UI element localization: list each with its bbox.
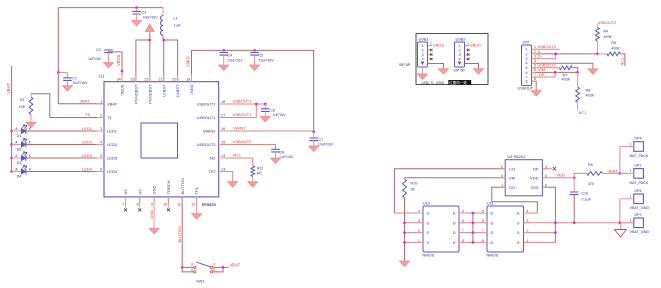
ground for TP1 pin 12 — [192, 214, 202, 219]
net label BUTTON vertical — [177, 226, 182, 242]
wire GP6 to VBAT_GND node — [619, 199, 621, 223]
svg-text:VBUS: VBUS — [116, 54, 121, 66]
resistor R7 493K — [559, 66, 577, 82]
no-connect USB1 pin 2 — [428, 49, 433, 51]
connector JP2 — [522, 40, 532, 86]
svg-text:NC: NC — [210, 156, 216, 161]
svg-text:D: D — [491, 231, 494, 235]
svg-text:VBUS: VBUS — [120, 84, 125, 95]
LED D1 — [12, 125, 32, 138]
wire JP2 pin 4 to ground — [532, 63, 593, 69]
power arrow PGNDBST — [145, 24, 154, 32]
svg-text:C10: C10 — [581, 192, 588, 196]
svg-text:USBOUT: USBOUT — [518, 87, 534, 91]
net label NC1 below R5 vertical — [620, 58, 625, 66]
ground for C2 — [104, 63, 114, 68]
svg-text:BAT_PACK: BAT_PACK — [630, 181, 649, 185]
svg-text:R9: R9 — [588, 163, 593, 167]
JP2 pin stubs overlay — [532, 49, 537, 81]
junction USBOUT1 tie — [255, 103, 258, 106]
junction node X DM DP R7 R8 — [576, 71, 579, 74]
svg-text:D: D — [453, 212, 456, 216]
pad GP2 — [630, 164, 649, 185]
pin number 6 and net label DM at JP2 — [534, 67, 545, 72]
svg-text:VMID: VMID — [189, 84, 194, 94]
wire U10 S pin 1 — [405, 241, 424, 243]
junction C4 tap — [222, 49, 225, 52]
net label LED1 — [82, 126, 93, 131]
svg-text:C4: C4 — [228, 54, 233, 58]
junction VBAT node at pads — [619, 172, 622, 175]
ground for pin 9 — [149, 229, 159, 234]
svg-text:1: 1 — [630, 142, 632, 146]
ground for C7 — [309, 146, 319, 151]
svg-text:RT9470: RT9470 — [202, 202, 216, 207]
net label NC1 below R8 — [579, 110, 587, 115]
ground for R1 — [26, 122, 36, 127]
U1 top pin numbers 24-19 — [117, 77, 191, 81]
junction VDD node — [573, 176, 576, 179]
wire LED2 cathode to pin 4 — [26, 144, 104, 146]
LED D4 — [12, 165, 32, 178]
junction drain bus row 6 — [472, 221, 475, 224]
op-amp U5 S8261 protection IC body — [505, 154, 542, 196]
pin number 5 and net label USBOUT1 at JP2 — [534, 63, 556, 68]
wire CO to U10 gate — [394, 169, 505, 213]
junction LXBST pins — [162, 39, 165, 42]
svg-text:1uH: 1uH — [174, 24, 181, 28]
svg-text:GND: GND — [152, 186, 157, 195]
wire JP2 pin 3 D+ tie to pin 2 — [532, 54, 556, 59]
wire JP2 pin 5 USBOUT1 to R7 — [532, 67, 560, 69]
svg-text:U1: U1 — [99, 74, 105, 79]
pin number 4 at JP2 — [534, 59, 536, 63]
svg-text:2: 2 — [534, 50, 536, 54]
wire USBOUT2 pin 15 net — [219, 145, 276, 150]
svg-text:4: 4 — [534, 59, 536, 63]
svg-text:LED2: LED2 — [107, 142, 118, 147]
capacitor C2 1uF/16V — [88, 48, 113, 63]
svg-text:JP2: JP2 — [523, 40, 530, 45]
svg-text:C3: C3 — [142, 11, 147, 15]
svg-text:T1: T1 — [107, 115, 112, 120]
wire corner down to VBAT pin 1 — [58, 8, 104, 104]
svg-text:LED4: LED4 — [82, 167, 93, 172]
capacitor C6 1uF/16V — [261, 104, 286, 117]
svg-text:USB1: USB1 — [422, 81, 431, 85]
net label USBOUT2 above R4 — [598, 20, 618, 25]
svg-text:D2: D2 — [17, 148, 22, 152]
svg-text:GP4: GP4 — [634, 137, 641, 141]
svg-text:D3: D3 — [17, 161, 22, 165]
net label VBUS at USB2 pin 1 — [467, 42, 481, 48]
capacitor C7 10uF/16V — [309, 132, 333, 147]
svg-text:C6: C6 — [270, 109, 275, 113]
connector USB1 SIP-5P — [418, 37, 429, 68]
svg-text:SWIN2: SWIN2 — [203, 129, 216, 134]
svg-text:R10: R10 — [411, 182, 418, 186]
pad GP3 — [630, 213, 650, 234]
wire NC pin 14 to R11 — [219, 158, 253, 166]
junction LED2 anode on VBAT bus — [10, 143, 13, 146]
svg-text:DO: DO — [509, 185, 515, 190]
svg-text:10K: 10K — [19, 105, 26, 109]
no-connect USB1 pin 4 — [428, 58, 433, 60]
no-connect USB2 pin 2 — [465, 49, 470, 51]
U5 pin numbers — [501, 165, 547, 188]
capacitor C4 22uF/16V — [219, 50, 243, 65]
U10 pin numbers — [418, 209, 464, 242]
wire TP1 pin 12 down — [196, 197, 198, 214]
svg-text:USB2: USB2 — [456, 37, 466, 42]
svg-text:USBOUT1: USBOUT1 — [197, 102, 217, 107]
svg-text:USBOUT2: USBOUT2 — [233, 139, 253, 144]
svg-text:TP2: TP2 — [208, 169, 216, 174]
ground for C5 — [250, 65, 260, 70]
svg-text:2: 2 — [526, 52, 528, 56]
svg-text:NC: NC — [123, 189, 128, 195]
no-connect USB2 pin 3 — [465, 53, 470, 55]
wire U11 S pin 3 row to pads — [524, 222, 634, 224]
wire USB1 pin1 VBUS — [428, 45, 433, 47]
junction C3 tap on top rail — [135, 6, 138, 9]
wire SWIN2 pin 16 to VMID rail — [219, 130, 314, 132]
svg-text:4: 4 — [458, 58, 460, 62]
wire BUTTON pin 11 down to switch — [181, 197, 183, 268]
no-connect pin 8 — [138, 197, 141, 211]
ground for JP2 pin 4 — [588, 69, 598, 74]
junction LED4 anode on VBAT bus — [10, 170, 13, 173]
svg-text:10uF/16V: 10uF/16V — [72, 81, 88, 85]
svg-text:VBAT: VBAT — [230, 263, 241, 268]
wire LED3 cathode to pin 5 — [26, 157, 104, 159]
junction R4 R5 node — [596, 53, 599, 56]
svg-text:D: D — [453, 241, 456, 245]
wire VSS down to source bus — [542, 187, 555, 242]
wire GND pin 9 down — [153, 197, 155, 229]
svg-text:VBAT_GND: VBAT_GND — [630, 230, 650, 234]
junction BUTTON at switch — [181, 266, 184, 269]
svg-text:1: 1 — [213, 263, 215, 267]
resistor R11 NC — [251, 166, 263, 182]
svg-text:1: 1 — [534, 45, 536, 49]
svg-text:2K: 2K — [411, 188, 416, 192]
resistor R8 493K — [576, 72, 595, 110]
U1 left pin names — [107, 102, 118, 175]
U1 bottom pin numbers 7-12 — [122, 202, 195, 206]
capacitor C8 1uF/16V — [271, 149, 294, 159]
net label USBOUT1 pin 18 — [233, 99, 253, 104]
svg-text:0.1uF: 0.1uF — [581, 198, 591, 202]
wire U10 S pin 2 — [405, 232, 424, 234]
wire switch right contacts to VBAT — [213, 267, 229, 272]
svg-text:U10: U10 — [423, 202, 430, 206]
svg-text:DP: DP — [533, 166, 539, 171]
U1 right pin names — [197, 102, 217, 175]
svg-text:D: D — [453, 231, 456, 235]
junction D- D+ tie — [554, 53, 557, 56]
svg-text:R4: R4 — [604, 30, 609, 34]
junction SWIN2 and C7 — [312, 130, 315, 133]
text SIP-5P left of USB1 — [399, 63, 411, 67]
no-connect U5 DP pin 4 — [542, 167, 556, 171]
junction drain bus row 7 — [472, 231, 475, 234]
svg-text:D: D — [491, 221, 494, 225]
svg-text:22uF/16V: 22uF/16V — [259, 59, 275, 63]
svg-text:3: 3 — [534, 55, 536, 59]
svg-text:VBAT: VBAT — [608, 168, 619, 173]
svg-text:11: 11 — [177, 202, 181, 206]
svg-text:VSS: VSS — [530, 185, 538, 190]
junction U10 S1 — [403, 241, 406, 244]
wire LXBST pins 21,20 join to L1 — [163, 35, 178, 81]
svg-text:USBOUT2: USBOUT2 — [598, 20, 618, 25]
wire VBUS pin 24 up and left to C2 — [109, 52, 123, 82]
junction GP6 on VBAT_GND row — [619, 221, 622, 224]
wire JP2 pin 2 D- to R4 node — [532, 53, 598, 55]
resistor R10 2K — [403, 178, 418, 198]
junction drain bus row 5 — [472, 212, 475, 215]
svg-text:22uF/16V: 22uF/16V — [228, 59, 244, 63]
svg-text:22: 22 — [144, 77, 148, 81]
resistor R9 470 — [574, 163, 634, 186]
svg-text:USB2: USB2 — [436, 81, 445, 85]
svg-text:1uF/16V: 1uF/16V — [273, 113, 287, 117]
net label VBAT at switch — [230, 263, 241, 268]
svg-text:VBAT: VBAT — [107, 102, 118, 107]
svg-text:6: 6 — [534, 68, 536, 72]
svg-text:LXBST: LXBST — [161, 84, 166, 97]
svg-text:19: 19 — [186, 77, 190, 81]
wire U10 drains to U11 drains rows — [459, 213, 487, 242]
net label LED3 — [82, 153, 93, 158]
svg-text:USB1: USB1 — [419, 37, 429, 42]
LED D3 — [12, 152, 32, 165]
svg-text:VBAT: VBAT — [80, 99, 91, 104]
svg-text:BUTTON: BUTTON — [180, 178, 185, 194]
wire LED4 cathode to pin 6 — [26, 171, 104, 173]
svg-text:LED1: LED1 — [82, 126, 93, 131]
svg-text:1: 1 — [526, 48, 528, 52]
svg-text:USBOUT1: USBOUT1 — [233, 99, 253, 104]
svg-text:G: G — [517, 212, 520, 216]
net label VBUS at USB1 pin 1 — [430, 42, 444, 48]
wire JP2 pin 8 to ground — [532, 81, 537, 90]
U11 pin numbers — [482, 209, 528, 242]
net label LED2 — [82, 140, 93, 145]
junction U11 S3 on bus — [554, 221, 557, 224]
pin number 2 and net label D- at JP2 — [534, 49, 542, 54]
svg-text:5: 5 — [534, 64, 536, 68]
svg-text:D: D — [453, 221, 456, 225]
svg-text:SIP-5P: SIP-5P — [399, 63, 411, 67]
net label VBAT vertical on left bus — [6, 83, 11, 94]
svg-text:NC1: NC1 — [620, 58, 625, 66]
wire pad GP3 stub — [620, 222, 634, 224]
wire U10 S pin 3 — [405, 222, 424, 224]
pad GP6 — [630, 189, 650, 210]
net label VBAT at pin 1 — [80, 99, 91, 104]
svg-text:1uF/16V: 1uF/16V — [280, 155, 294, 159]
ground for USB2 pin 5 — [474, 69, 484, 74]
svg-text:1: 1 — [421, 44, 423, 48]
svg-text:BUTTON: BUTTON — [177, 226, 182, 242]
net label USBOUT1 pin 17 — [233, 112, 253, 117]
U1 pin stubs overlay — [97, 75, 226, 204]
pin number 7 and net label DP at JP2 — [534, 72, 545, 77]
svg-text:VBAT_GND: VBAT_GND — [630, 206, 650, 210]
wire DO to U11 gate — [492, 187, 538, 213]
junction C10 bottom on VBAT_GND row — [573, 221, 576, 224]
ground for USB1 shell — [418, 74, 428, 79]
capacitor C5 22uF/16V — [250, 50, 274, 65]
svg-text:10uF/16V: 10uF/16V — [143, 16, 159, 20]
pin number 3 and net label D+ at JP2 — [534, 54, 543, 59]
wire USB1 shell to ground — [422, 67, 424, 74]
svg-text:SW1: SW1 — [196, 279, 205, 284]
junction U10 S2 — [403, 231, 406, 234]
junction U11 S2 on bus — [554, 231, 557, 234]
svg-text:NC: NC — [257, 172, 263, 176]
no-connect pin 10 — [167, 197, 170, 211]
ground for R11 — [248, 182, 258, 187]
svg-text:BAT_PACK: BAT_PACK — [630, 154, 649, 158]
svg-text:1: 1 — [467, 42, 469, 46]
wire top-left corner VBAT rail — [58, 7, 163, 9]
wire pad GP4 stub — [620, 146, 634, 148]
resistor R4 493K — [596, 25, 613, 54]
svg-text:1: 1 — [630, 169, 632, 173]
svg-text:3: 3 — [458, 53, 460, 57]
svg-text:10: 10 — [163, 202, 167, 206]
pin number 1 and net label USBOUT2 at JP2 — [534, 44, 556, 49]
svg-text:4: 4 — [191, 268, 193, 272]
ground for C8 — [271, 158, 281, 163]
wire U10 source bus to ground — [404, 198, 406, 261]
ground for C3 — [132, 21, 142, 26]
svg-text:LED3: LED3 — [107, 156, 118, 161]
svg-text:NMOS: NMOS — [487, 253, 499, 258]
svg-text:D+: D+ — [538, 54, 544, 59]
svg-text:6: 6 — [526, 71, 528, 75]
wire switch left contacts — [182, 267, 194, 272]
note text USB1 USB2 alignment — [422, 80, 472, 85]
svg-text:2: 2 — [458, 49, 460, 53]
svg-text:R5: R5 — [611, 41, 616, 45]
svg-text:TP1: TP1 — [194, 186, 199, 194]
net label USBOUT2 — [233, 139, 253, 144]
svg-text:2: 2 — [421, 49, 423, 53]
wire VDD net — [542, 177, 574, 179]
wire PGNDBST pins 23,22 up to power arrow — [136, 32, 150, 82]
svg-text:8: 8 — [534, 77, 536, 81]
wire JP2 pin 1 USBOUT2 stub — [532, 48, 560, 50]
svg-text:USBOUT2: USBOUT2 — [197, 142, 217, 147]
wire JP2 pin 7 DP tie to pin 6 — [532, 72, 556, 77]
junction DM DP tie — [554, 71, 557, 74]
svg-text:NMOS: NMOS — [423, 253, 435, 258]
svg-text:VBUS: VBUS — [470, 42, 481, 47]
svg-text:NC1: NC1 — [233, 153, 242, 158]
svg-text:LED2: LED2 — [82, 140, 93, 145]
junction PGNDBST pins — [148, 39, 151, 42]
USB section enclosure box — [416, 34, 488, 85]
svg-text:TORCH: TORCH — [166, 180, 171, 194]
wire R1 top to TS pin 2 — [31, 94, 104, 118]
svg-text:LED4: LED4 — [107, 169, 118, 174]
wire JP2 pin 6 DM to node X — [532, 71, 578, 73]
svg-text:493K: 493K — [604, 35, 613, 39]
U1 bottom pin names — [123, 178, 199, 194]
svg-text:3: 3 — [526, 57, 528, 61]
svg-text:470: 470 — [588, 182, 594, 186]
inductor L1 1uH — [161, 8, 181, 36]
net label SWIN2 — [233, 126, 246, 131]
svg-text:U5 S8261: U5 S8261 — [507, 154, 526, 159]
svg-text:3: 3 — [421, 53, 423, 57]
switch SW1 contacts and lever — [191, 262, 215, 283]
junction C1 tap — [57, 71, 60, 74]
net label GND vertical — [149, 210, 154, 219]
svg-text:位置同一致: 位置同一致 — [449, 80, 467, 85]
svg-text:C2: C2 — [96, 48, 101, 52]
node VBAT left bus wire — [11, 66, 13, 172]
net label VBUS vertical — [116, 54, 121, 66]
junction on VBUS wire — [121, 70, 124, 73]
svg-text:20: 20 — [172, 77, 176, 81]
svg-text:NC1: NC1 — [579, 110, 587, 115]
svg-text:LXBST: LXBST — [175, 84, 180, 97]
svg-text:R1: R1 — [20, 98, 25, 102]
svg-text:12: 12 — [191, 202, 195, 206]
svg-text:R8: R8 — [586, 89, 591, 93]
svg-text:493K: 493K — [562, 78, 571, 82]
svg-text:LED3: LED3 — [82, 153, 93, 158]
svg-text:L1: L1 — [174, 17, 178, 21]
capacitor C3 10uF/16V — [132, 8, 158, 21]
wire GP4 to VBAT node — [619, 147, 621, 174]
svg-text:PGNDBST: PGNDBST — [147, 84, 152, 104]
U10 U11 pin stubs overlay — [418, 213, 530, 242]
svg-text:9: 9 — [151, 202, 153, 206]
junction C5 tap — [253, 49, 256, 52]
svg-text:GND: GND — [149, 210, 154, 219]
svg-text:GP2: GP2 — [634, 164, 641, 168]
svg-text:1: 1 — [430, 42, 432, 46]
U1 left pin numbers 1-6 — [100, 100, 102, 172]
pin number 8 at JP2 — [534, 77, 536, 81]
junction drain bus row 8 — [472, 241, 475, 244]
svg-text:1: 1 — [630, 219, 632, 223]
ground for USB1 pin 5 — [439, 69, 449, 74]
svg-text:SIP-5P: SIP-5P — [454, 69, 466, 73]
ground for C4 — [219, 65, 229, 70]
svg-text:LED1: LED1 — [107, 129, 118, 134]
junction switch output — [222, 266, 225, 269]
svg-text:VBUS: VBUS — [433, 42, 444, 47]
svg-text:23: 23 — [130, 77, 134, 81]
svg-text:C1: C1 — [72, 76, 77, 80]
ground for JP2 pin 8 — [531, 91, 541, 96]
op-amp U1 RT9470 main IC body — [99, 74, 219, 208]
U5 pin stubs overlay — [500, 169, 549, 188]
svg-text:GP6: GP6 — [634, 189, 641, 193]
net label VDD — [557, 172, 566, 177]
resistor R5 493K — [597, 41, 625, 66]
svg-text:VBAT: VBAT — [6, 83, 11, 94]
svg-text:493K: 493K — [586, 94, 595, 98]
svg-text:G: G — [427, 212, 430, 216]
